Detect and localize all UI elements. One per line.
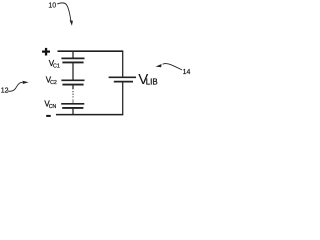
svg-text:12: 12 xyxy=(1,88,9,95)
svg-text:10: 10 xyxy=(48,3,56,10)
svg-text:14: 14 xyxy=(183,69,191,76)
battery V_LIB xyxy=(109,77,136,81)
svg-text:C1: C1 xyxy=(53,63,60,69)
wire: right branch, top rail down to battery xyxy=(122,51,124,77)
svg-text:CN: CN xyxy=(49,104,57,110)
capacitor C2 xyxy=(61,80,84,84)
wire: C1 to C2 xyxy=(72,62,74,80)
capacitor CN xyxy=(61,104,84,108)
leader arrow for 14 xyxy=(163,64,182,70)
wire: CN to bottom rail xyxy=(72,108,74,115)
svg-text:C2: C2 xyxy=(50,80,57,86)
svg-text:LIB: LIB xyxy=(146,77,158,86)
wire: top rail to capacitor C1 xyxy=(72,51,74,58)
leader arrow for 12 xyxy=(8,82,23,91)
minus terminal xyxy=(46,115,51,117)
wire: C2 down to ellipsis xyxy=(72,85,74,90)
leader arrow for 10 xyxy=(57,3,71,21)
top rail (positive bus) xyxy=(58,50,124,52)
plus terminal xyxy=(42,48,50,56)
bottom rail (negative bus) xyxy=(56,114,123,116)
wire: battery down to bottom rail xyxy=(122,82,124,115)
capacitor C1 xyxy=(61,58,84,62)
ellipsis (dotted wire, more cells) xyxy=(72,91,73,98)
wire: ellipsis to capacitor CN xyxy=(72,99,74,104)
